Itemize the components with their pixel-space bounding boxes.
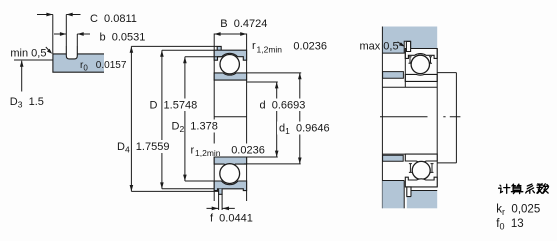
- label calculation factors (CJK drawn as strokes): [499, 184, 549, 194]
- label D4 value: [115, 140, 169, 154]
- label r12min top: [251, 40, 328, 54]
- outer ring bottom right view: [405, 177, 437, 187]
- dimension f: [207, 207, 235, 209]
- svg-text:min 0,5: min 0,5: [10, 47, 46, 59]
- svg-text:max: max: [360, 40, 381, 52]
- label d1 value: [277, 122, 332, 136]
- svg-text:f 0.0441: f 0.0441: [210, 213, 253, 225]
- D3 groove diameter line: [14, 59, 53, 61]
- D extension top: [162, 49, 214, 51]
- shaft shoulder strip bottom: [383, 155, 404, 161]
- housing top block: [382, 27, 437, 54]
- D2 extension top: [185, 56, 222, 58]
- char ji: [499, 184, 510, 193]
- char shu: [537, 184, 549, 194]
- cage bottom right view: [409, 164, 434, 173]
- snap ring tab bottom: [219, 189, 223, 195]
- svg-text:0,5: 0,5: [383, 40, 398, 52]
- bearing face lines right view: [404, 49, 406, 88]
- D4 extension bottom: [131, 190, 219, 192]
- D3 arrow: [21, 61, 23, 92]
- shaft collar end vertical: [455, 73, 457, 163]
- svg-text:b 0.0531: b 0.0531: [100, 31, 146, 43]
- label r12min bottom: [189, 144, 269, 159]
- housing bottom B notch floor: [407, 197, 411, 209]
- outer ring top right view: [405, 49, 437, 59]
- d1 extension bottom: [244, 163, 301, 165]
- dimension C: [37, 14, 81, 16]
- d1 extension top: [247, 72, 302, 74]
- dimension D4 vertical: [130, 46, 132, 191]
- svg-text:kr 0,025: kr 0,025: [496, 203, 540, 217]
- svg-text:f0 13: f0 13: [496, 218, 523, 232]
- dimension d vertical: [276, 82, 278, 157]
- shaft centerline: [380, 116, 460, 118]
- svg-text:D4 1.7559: D4 1.7559: [117, 141, 169, 154]
- cage top right view: [409, 57, 433, 64]
- inner ring top section: [214, 73, 246, 80]
- ball bottom right view: [412, 161, 430, 179]
- char xi: [526, 184, 535, 193]
- housing bottom A column: [382, 181, 404, 209]
- D4 extension top: [131, 45, 217, 47]
- svg-text:r: r: [191, 144, 195, 156]
- centerline: [214, 116, 246, 118]
- dimension d1 vertical: [299, 73, 301, 164]
- svg-text:d 0.6693: d 0.6693: [260, 100, 306, 112]
- D extension bottom: [162, 188, 214, 190]
- svg-text:1,2min: 1,2min: [257, 45, 283, 55]
- svg-text:0.0236: 0.0236: [293, 41, 327, 53]
- shaft collar top line: [437, 72, 456, 74]
- snap ring tab top: [217, 46, 221, 50]
- inner ring bottom section: [214, 157, 246, 166]
- svg-text:B 0.4724: B 0.4724: [220, 18, 267, 30]
- f extension lines: [219, 194, 223, 210]
- inner ring top right view: [405, 74, 437, 81]
- dimension D vertical: [161, 50, 163, 189]
- ball bottom: [220, 164, 240, 184]
- extension line C left: [52, 15, 54, 54]
- left outline vertical: [381, 27, 383, 209]
- ring cross-section block: [53, 54, 104, 72]
- svg-text:0.0236: 0.0236: [231, 144, 265, 156]
- shaft collar bottom line: [437, 162, 456, 164]
- extension line slot right wall up: [76, 34, 78, 46]
- groove slot: [66, 48, 77, 59]
- outer ring bottom section: [214, 181, 246, 191]
- svg-text:1,2min: 1,2min: [195, 148, 221, 158]
- D2 extension bottom: [185, 180, 215, 182]
- dimension B: [214, 33, 246, 35]
- dimension b: [54, 33, 90, 35]
- svg-text:r: r: [252, 40, 256, 52]
- shaft top line: [382, 86, 437, 88]
- bearing right face line: [246, 34, 248, 202]
- shaft shoulder strip top: [383, 72, 404, 79]
- label D2 value: [170, 120, 218, 134]
- snap ring tab right view bottom: [407, 187, 411, 197]
- ball top right view: [411, 55, 429, 73]
- snap ring tab right view top: [406, 41, 410, 51]
- shaft bottom line: [382, 153, 437, 155]
- label D value: [148, 99, 198, 112]
- svg-text:D 1.5748: D 1.5748: [150, 100, 198, 112]
- housing bottom C block: [411, 191, 437, 209]
- ball top: [220, 54, 239, 73]
- outer ring top section: [214, 50, 246, 60]
- label d value: [258, 99, 306, 112]
- svg-text:D2 1.378: D2 1.378: [172, 121, 218, 134]
- dimension D2 vertical: [184, 57, 186, 181]
- inner ring bottom right view: [405, 154, 437, 162]
- char suan: [511, 184, 522, 193]
- d extension bottom: [244, 156, 278, 158]
- svg-text:C 0.0811: C 0.0811: [90, 13, 137, 25]
- extension line slot left wall up: [65, 15, 67, 47]
- svg-text:D3 1.5: D3 1.5: [10, 96, 44, 109]
- bearing left face line: [213, 34, 215, 202]
- d extension top: [247, 81, 278, 83]
